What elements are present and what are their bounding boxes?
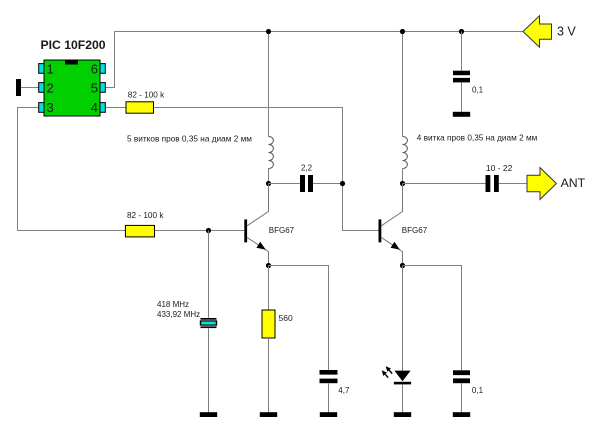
svg-text:3 V: 3 V	[557, 24, 576, 38]
transistor Q2 BFG67	[379, 184, 403, 266]
inductor L1 5 turns	[269, 137, 274, 169]
wire L2 bottom lead	[402, 169, 404, 184]
wire Q2 emitter to C5 branch	[403, 266, 462, 371]
ground under C3	[320, 412, 337, 417]
node C4 at supply rail	[459, 29, 464, 34]
ground under R3	[260, 412, 277, 417]
ground under LED	[394, 412, 411, 417]
wire crystal top lead	[208, 231, 210, 318]
svg-text:4 витка пров 0,35 на диам 2 мм: 4 витка пров 0,35 на диам 2 мм	[417, 133, 538, 142]
svg-text:0,1: 0,1	[472, 386, 484, 395]
wire node to C2	[269, 183, 301, 185]
resistor R2 82-100k	[125, 225, 154, 237]
svg-text:82 - 100 k: 82 - 100 k	[127, 211, 164, 220]
wire pin5 vertical riser	[105, 32, 114, 88]
wire Q2 emitter to LED	[402, 266, 404, 371]
inductor L2 4 turns	[403, 137, 408, 169]
capacitor C2 2,2	[300, 175, 313, 192]
wire emitter to C3 branch	[269, 266, 329, 371]
ANT arrow	[527, 168, 556, 200]
capacitor C4 0,1	[453, 71, 470, 83]
wire C6 to ANT arrow	[499, 183, 527, 185]
wire pin3 left-down-right to R2	[18, 108, 126, 231]
wire emitter to R3	[268, 266, 270, 311]
wire L2 top lead	[402, 32, 404, 137]
svg-text:4: 4	[91, 100, 98, 115]
node Q1 emitter	[266, 263, 271, 268]
svg-text:560: 560	[279, 313, 293, 323]
wire antenna tap to C6	[403, 183, 486, 185]
wire C3 to ground	[328, 383, 330, 412]
svg-text:6: 6	[91, 61, 98, 76]
wire C4 to ground	[461, 82, 463, 111]
resistor R1 82-100k	[126, 102, 154, 113]
LED D1	[382, 366, 411, 384]
svg-text:0,1: 0,1	[472, 86, 484, 95]
resistor R3 560	[262, 310, 275, 338]
capacitor C5 0,1	[453, 370, 470, 383]
svg-text:5: 5	[91, 81, 98, 96]
svg-text:3: 3	[47, 100, 54, 115]
node Q1 collector	[266, 181, 271, 186]
svg-text:ANT: ANT	[561, 176, 586, 190]
wire C4 top lead	[461, 32, 463, 71]
node L1 at supply rail	[266, 29, 271, 34]
svg-text:82 - 100 k: 82 - 100 k	[128, 91, 165, 100]
svg-text:2,2: 2,2	[301, 163, 313, 172]
node C2 / R1 / Q2 base	[340, 181, 345, 186]
svg-text:10 - 22: 10 - 22	[486, 163, 513, 173]
svg-text:4,7: 4,7	[338, 386, 350, 395]
wire L1 top lead	[268, 32, 270, 137]
node Q2 collector / antenna tap	[400, 181, 405, 186]
wire pin2 to connector bar	[21, 87, 39, 89]
3V supply arrow	[523, 16, 552, 47]
ground under C5	[453, 412, 470, 417]
capacitor C6 10-22	[486, 175, 499, 192]
wire C5 to ground	[461, 383, 463, 412]
svg-text:BFG67: BFG67	[402, 226, 428, 235]
svg-text:BFG67: BFG67	[269, 226, 295, 235]
wire R1 to node above C2/Q2 base	[154, 108, 379, 231]
svg-text:2: 2	[47, 81, 54, 96]
wire R2 to Q1 base	[155, 230, 245, 232]
node L2 at supply rail	[400, 29, 405, 34]
ground under crystal	[200, 412, 217, 417]
wire R3 to ground	[268, 338, 270, 413]
svg-text:1: 1	[47, 61, 54, 76]
svg-text:433,92 MHz: 433,92 MHz	[157, 310, 200, 319]
wire crystal bottom lead	[208, 328, 210, 412]
transistor Q1 BFG67	[244, 184, 268, 266]
wire pin4 to R1	[105, 107, 126, 109]
wire LED to ground	[402, 384, 404, 412]
ground under C4	[453, 112, 470, 117]
node Q2 emitter	[400, 263, 405, 268]
svg-text:5 витков пров 0,35 на диам 2 м: 5 витков пров 0,35 на диам 2 мм	[127, 134, 252, 143]
crystal Y1	[200, 318, 217, 328]
node base Q1 / crystal junction	[206, 228, 211, 233]
wire L1 bottom lead	[268, 169, 270, 184]
connector bar J1	[16, 79, 21, 96]
capacitor C3 4,7	[320, 370, 338, 383]
svg-text:PIC 10F200: PIC 10F200	[41, 38, 106, 52]
IC U1 PIC 10F200	[39, 60, 106, 116]
wire C2 to node	[313, 183, 343, 185]
svg-text:418 MHz: 418 MHz	[157, 300, 189, 309]
wire top supply rail	[115, 31, 524, 33]
